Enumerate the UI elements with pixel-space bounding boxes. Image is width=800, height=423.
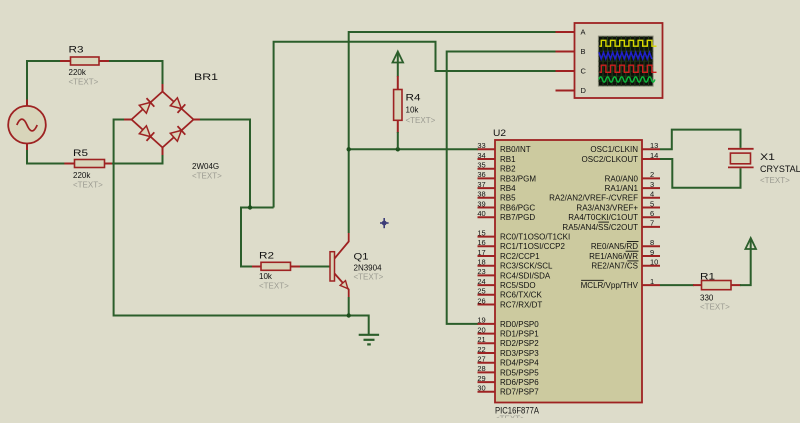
text Q1 <TEXT> [354, 273, 384, 282]
svg-text:RD6/PSP6: RD6/PSP6 [500, 378, 539, 387]
value BR1 2W04G [192, 162, 219, 171]
svg-text:RB2: RB2 [500, 165, 516, 174]
power arrow R1 [745, 238, 756, 250]
label R3 [69, 45, 84, 56]
svg-text:16: 16 [477, 238, 485, 247]
wire Q1 collector up to node [348, 149, 350, 233]
resistor R2 body [261, 262, 291, 270]
text R5 <TEXT> [73, 181, 103, 190]
chip U2 pin 18 RC3/SCK/SCL stub [477, 258, 553, 271]
chip U2 pin 10 RE2/AN7/CS stub [591, 258, 660, 271]
svg-text:RB4: RB4 [500, 184, 516, 193]
svg-text:R2: R2 [259, 251, 274, 262]
svg-text:RD4/PSP4: RD4/PSP4 [500, 359, 539, 368]
svg-text:220k: 220k [73, 171, 91, 180]
wire OSC2 to crystal [660, 159, 741, 188]
label R1 [700, 272, 715, 283]
AC source top pin stub [26, 99, 28, 106]
resistor R1 body [702, 281, 732, 290]
chip U2 body [495, 140, 642, 403]
svg-text:37: 37 [477, 180, 485, 189]
chip U2 pin 26 RC7/RX/DT stub [477, 296, 542, 309]
resistor R5 left stub [64, 163, 74, 165]
svg-text:RB6/PGC: RB6/PGC [500, 203, 535, 212]
wire Q1 emitter down to rail [348, 297, 350, 316]
chip U2 pin 14 OSC2/CLKOUT stub [582, 151, 660, 164]
svg-text:RC1/T1OSI/CCP2: RC1/T1OSI/CCP2 [500, 242, 565, 251]
transistor Q1 base bar [330, 252, 335, 281]
svg-text:RA3/AN3/VREF+: RA3/AN3/VREF+ [576, 203, 638, 212]
crystal X1 bottom plate [728, 166, 754, 168]
svg-text:29: 29 [477, 374, 485, 383]
node junction dot collector [347, 147, 351, 151]
chip U2 pin 8 RE0/AN5/RD stub [591, 238, 660, 251]
chip U2 pin 5 RA3/AN3/VREF+ stub [576, 199, 660, 212]
wire OSC1 to crystal [660, 130, 741, 150]
svg-text:X1: X1 [760, 152, 775, 163]
chip U2 pin 33 RB0/INT stub [477, 141, 530, 154]
chip U2 pin 27 RD4/PSP4 stub [477, 355, 539, 368]
transistor Q1 emitter [335, 274, 349, 298]
text R2 <TEXT> [259, 282, 289, 291]
svg-text:<TEXT>: <TEXT> [700, 303, 730, 312]
svg-text:OSC2/CLKOUT: OSC2/CLKOUT [582, 155, 639, 164]
svg-text:A: A [581, 28, 586, 37]
svg-text:27: 27 [477, 355, 485, 364]
wire R1 to power arrow [740, 249, 751, 285]
transistor Q1 collector [335, 233, 349, 259]
resistor R2 right stub [291, 266, 302, 268]
svg-text:34: 34 [477, 151, 485, 160]
svg-text:RA2/AN2/VREF-/CVREF: RA2/AN2/VREF-/CVREF [549, 194, 638, 203]
chip U2 pin 6 RA4/T0CKI/C1OUT stub [568, 209, 660, 222]
resistor R5 right stub [105, 163, 113, 165]
svg-text:RC7/RX/DT: RC7/RX/DT [500, 300, 542, 309]
text U2 <TEXT> [495, 415, 525, 423]
svg-text:28: 28 [477, 364, 485, 373]
svg-text:20: 20 [477, 325, 485, 334]
svg-text:D: D [581, 86, 587, 95]
ground [359, 335, 379, 345]
svg-text:RC4/SDI/SDA: RC4/SDI/SDA [500, 271, 551, 280]
svg-text:RA4/T0CKI/C1OUT: RA4/T0CKI/C1OUT [568, 213, 638, 222]
svg-text:CRYSTAL: CRYSTAL [760, 164, 800, 174]
svg-text:RE2/AN7/CS: RE2/AN7/CS [591, 262, 638, 271]
chip U2 pin 7 RA5/AN4/SS/C2OUT stub [562, 219, 660, 232]
oscilloscope pin A label [581, 28, 586, 37]
svg-text:RD7/PSP7: RD7/PSP7 [500, 388, 539, 397]
value R5 220k [73, 171, 91, 180]
chip U2 pin 23 RC4/SDI/SDA stub [477, 267, 551, 280]
chip U2 pin 28 RD5/PSP5 stub [477, 364, 539, 377]
svg-text:BR1: BR1 [194, 72, 218, 83]
svg-text:B: B [581, 47, 586, 56]
label BR1 [194, 72, 218, 83]
svg-text:RA0/AN0: RA0/AN0 [605, 174, 639, 183]
svg-text:RB1: RB1 [500, 155, 516, 164]
chip U2 pin 4 RA2/AN2/VREF-/CVREF stub [549, 190, 660, 203]
value R4 10k [406, 106, 420, 115]
svg-text:2N3904: 2N3904 [354, 264, 383, 273]
text BR1 <TEXT> [192, 172, 222, 181]
svg-text:R1: R1 [700, 272, 715, 283]
svg-text:17: 17 [477, 248, 485, 257]
value R2 10k [259, 272, 273, 281]
svg-text:330: 330 [700, 294, 714, 303]
resistor R3 right stub [99, 60, 110, 62]
svg-text:R3: R3 [69, 45, 84, 56]
svg-text:<TEXT>: <TEXT> [760, 176, 790, 185]
chip U2 pin 24 RC5/SDO stub [477, 277, 535, 290]
chip U2 pin 15 RC0/T1OSO/T1CKI stub [477, 228, 570, 241]
svg-text:8: 8 [650, 238, 654, 247]
svg-text:39: 39 [477, 199, 485, 208]
oscilloscope pin D label [581, 86, 587, 95]
resistor R1 right stub [731, 284, 741, 286]
chip U2 pin 9 RE1/AN6/WR stub [589, 248, 660, 261]
svg-text:38: 38 [477, 190, 485, 199]
scope trace B blue [599, 52, 652, 59]
svg-text:40: 40 [477, 209, 485, 218]
svg-text:4: 4 [650, 190, 654, 199]
node junction dot emitter-rail [347, 313, 351, 317]
text R4 <TEXT> [406, 116, 436, 125]
bridge BR1 right stub [194, 119, 202, 121]
chip U2 pin 1 MCLR/Vpp/THV stub [581, 277, 660, 290]
bridge BR1 left stub [123, 119, 132, 121]
label R2 [259, 251, 274, 262]
wire junction jog [241, 208, 274, 267]
wire collector node to scope A [349, 32, 556, 149]
chip U2 pin 34 RB1 stub [477, 151, 516, 164]
wire bridge right to junction [200, 120, 250, 208]
resistor R3 left stub [60, 60, 71, 62]
oscilloscope body [575, 23, 663, 98]
svg-text:RB0/INT: RB0/INT [500, 145, 531, 154]
svg-text:2: 2 [650, 170, 654, 179]
svg-text:RC3/SCK/SCL: RC3/SCK/SCL [500, 262, 553, 271]
svg-text:220k: 220k [69, 68, 87, 77]
svg-text:RD2/PSP2: RD2/PSP2 [500, 339, 539, 348]
chip U2 pin 38 RB5 stub [477, 190, 516, 203]
node junction dot base-net [248, 205, 252, 209]
svg-text:R4: R4 [406, 93, 421, 104]
oscilloscope pin C label [581, 67, 587, 76]
chip U2 pin 13 OSC1/CLKIN stub [590, 141, 660, 154]
svg-text:RE0/AN5/RD: RE0/AN5/RD [591, 242, 638, 251]
wire AC-top to R3 [27, 61, 61, 100]
svg-text:<TEXT>: <TEXT> [192, 172, 222, 181]
chip U2 pin 36 RB3/PGM stub [477, 170, 536, 183]
oscilloscope pin C stub [556, 70, 575, 72]
svg-text:<TEXT>: <TEXT> [69, 78, 99, 87]
svg-text:21: 21 [477, 335, 485, 344]
svg-text:35: 35 [477, 161, 485, 170]
AC voltage source [8, 106, 46, 144]
AC source bottom pin stub [26, 143, 28, 150]
svg-text:<TEXT>: <TEXT> [73, 181, 103, 190]
svg-text:5: 5 [650, 199, 654, 208]
svg-text:36: 36 [477, 170, 485, 179]
bridge BR1 top stub [162, 84, 164, 92]
crystal X1 top plate [728, 148, 754, 150]
svg-text:22: 22 [477, 345, 485, 354]
svg-text:30: 30 [477, 384, 485, 393]
resistor R1 left stub [693, 284, 702, 286]
wire junction up to scope C net [274, 42, 556, 208]
svg-text:MCLR/Vpp/THV: MCLR/Vpp/THV [581, 281, 639, 290]
chip U2 pin 30 RD7/PSP7 stub [477, 384, 539, 397]
svg-text:<TEXT>: <TEXT> [259, 282, 289, 291]
svg-text:6: 6 [650, 209, 654, 218]
svg-text:RB5: RB5 [500, 194, 516, 203]
svg-text:<TEXT>: <TEXT> [495, 415, 525, 419]
crystal X1 body [730, 153, 750, 164]
value X1 CRYSTAL [760, 164, 800, 174]
power arrow R4 [393, 52, 404, 77]
chip U2 pin 25 RC6/TX/CK stub [477, 287, 542, 300]
scope trace A yellow square [600, 40, 657, 46]
wire node to RB0 [349, 148, 478, 150]
svg-text:<TEXT>: <TEXT> [354, 273, 384, 282]
svg-text:C: C [581, 67, 587, 76]
svg-text:RC6/TX/CK: RC6/TX/CK [500, 291, 542, 300]
chip U2 pin 21 RD2/PSP2 stub [477, 335, 539, 348]
svg-text:26: 26 [477, 296, 485, 305]
resistor R2 left stub [252, 266, 261, 268]
wire R5 to bridge bottom [112, 155, 163, 164]
svg-text:23: 23 [477, 267, 485, 276]
scope trace D green sine [599, 77, 655, 82]
svg-text:2W04G: 2W04G [192, 162, 219, 171]
bridge BR1 diode D1 (left to top) [132, 92, 163, 120]
svg-text:1: 1 [650, 277, 654, 286]
label X1 [760, 152, 775, 163]
chip U2 pin 22 RD3/PSP3 stub [477, 345, 539, 358]
node junction dot R4 bottom [396, 147, 400, 151]
chip U2 pin 16 RC1/T1OSI/CCP2 stub [477, 238, 565, 251]
svg-text:13: 13 [650, 141, 658, 150]
resistor R4 top stub [397, 76, 399, 90]
chip U2 pin 37 RB4 stub [477, 180, 516, 193]
resistor R4 bottom stub [397, 120, 399, 133]
chip U2 pin 40 RB7/PGD stub [477, 209, 535, 222]
label PIC16F877A [495, 406, 539, 416]
chip U2 pin 2 RA0/AN0 stub [605, 170, 660, 183]
resistor R4 body [394, 90, 402, 121]
oscilloscope pin A stub [556, 31, 575, 33]
svg-text:9: 9 [650, 248, 654, 257]
text X1 <TEXT> [760, 176, 790, 185]
value R1 330 [700, 294, 714, 303]
label R5 [73, 148, 88, 159]
wire ground rail to ground [349, 316, 369, 336]
svg-text:RD5/PSP5: RD5/PSP5 [500, 368, 539, 377]
chip U2 pin 35 RB2 stub [477, 161, 516, 174]
svg-text:RA1/AN1: RA1/AN1 [605, 184, 639, 193]
svg-text:RD1/PSP1: RD1/PSP1 [500, 330, 539, 339]
svg-text:15: 15 [477, 228, 485, 237]
svg-text:RC0/T1OSO/T1CKI: RC0/T1OSO/T1CKI [500, 233, 570, 242]
svg-text:Q1: Q1 [354, 252, 369, 263]
text R1 <TEXT> [700, 303, 730, 312]
svg-text:24: 24 [477, 277, 485, 286]
resistor R5 body [75, 160, 105, 168]
wire AC-bottom to R5 [27, 150, 65, 164]
oscilloscope screen [598, 36, 653, 86]
svg-text:<TEXT>: <TEXT> [406, 116, 436, 125]
bridge BR1 diode D2 (top to right) [163, 92, 194, 120]
svg-text:19: 19 [477, 316, 485, 325]
scope trace C red square [600, 65, 657, 72]
svg-text:10k: 10k [406, 106, 420, 115]
svg-text:10: 10 [650, 258, 658, 267]
svg-text:RC5/SDO: RC5/SDO [500, 281, 536, 290]
wire bridge left corner down to ground rail [114, 120, 349, 316]
svg-text:33: 33 [477, 141, 485, 150]
text R3 <TEXT> [69, 78, 99, 87]
svg-text:7: 7 [650, 219, 654, 228]
origin marker [380, 218, 389, 228]
wire scope B net [447, 52, 556, 324]
label U2 [493, 128, 506, 139]
chip U2 pin 20 RD1/PSP1 stub [477, 325, 539, 338]
bridge BR1 diode D4 (bottom to right) [163, 120, 194, 148]
chip U2 pin 17 RC2/CCP1 stub [477, 248, 540, 261]
svg-text:R5: R5 [73, 148, 88, 159]
label Q1 [354, 252, 369, 263]
svg-text:RD0/PSP0: RD0/PSP0 [500, 320, 539, 329]
svg-text:RB3/PGM: RB3/PGM [500, 174, 536, 183]
wire R4 to node [397, 132, 399, 149]
svg-text:18: 18 [477, 258, 485, 267]
svg-text:3: 3 [650, 180, 654, 189]
wire R2 to Q1 base [300, 266, 330, 268]
svg-text:RE1/AN6/WR: RE1/AN6/WR [589, 252, 638, 261]
svg-text:U2: U2 [493, 128, 506, 139]
svg-text:OSC1/CLKIN: OSC1/CLKIN [590, 145, 638, 154]
svg-text:14: 14 [650, 151, 658, 160]
bridge BR1 bottom stub [162, 148, 164, 156]
oscilloscope pin D stub [556, 90, 575, 92]
svg-text:RC2/CCP1: RC2/CCP1 [500, 252, 540, 261]
chip U2 pin 3 RA1/AN1 stub [605, 180, 660, 193]
svg-text:25: 25 [477, 287, 485, 296]
value Q1 2N3904 [354, 264, 383, 273]
svg-text:10k: 10k [259, 272, 273, 281]
resistor R3 body [71, 57, 100, 65]
bridge BR1 diode D3 (left to bottom) [132, 120, 163, 148]
svg-text:RB7/PGD: RB7/PGD [500, 213, 535, 222]
value R3 220k [69, 68, 87, 77]
svg-text:RD3/PSP3: RD3/PSP3 [500, 349, 539, 358]
chip U2 pin 19 RD0/PSP0 stub [477, 316, 539, 329]
oscilloscope pin B stub [556, 51, 575, 53]
wire MCLR to R1 [660, 284, 694, 286]
label R4 [406, 93, 421, 104]
chip U2 pin 39 RB6/PGC stub [477, 199, 535, 212]
wire R3 to bridge top [109, 61, 163, 84]
chip U2 pin 29 RD6/PSP6 stub [477, 374, 539, 387]
oscilloscope pin B label [581, 47, 586, 56]
svg-text:RA5/AN4/SS/C2OUT: RA5/AN4/SS/C2OUT [562, 223, 638, 232]
